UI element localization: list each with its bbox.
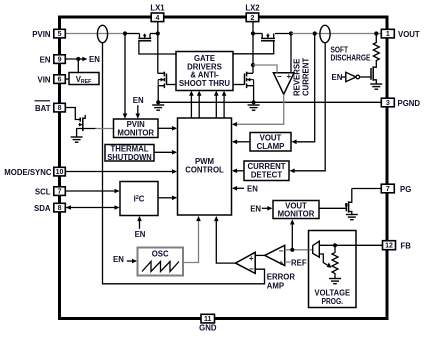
transistor Q3 low-side NMOS LX1-PGND xyxy=(158,72,165,74)
pin 11 GND xyxy=(201,314,215,323)
pin 7 PG xyxy=(381,184,394,193)
svg-text:SHUTDOWN: SHUTDOWN xyxy=(107,153,152,162)
wire EN into I2C xyxy=(139,221,141,229)
wire current detect output to PWM control xyxy=(236,170,244,172)
block PVIN monitor xyxy=(114,119,159,138)
block current detect xyxy=(244,161,289,181)
ground symbol below Q3 xyxy=(152,104,164,106)
wire PVIN sense feedback to PWM comparator inverting input xyxy=(103,43,265,284)
svg-text:8: 8 xyxy=(58,105,62,112)
svg-text:11: 11 xyxy=(204,316,212,323)
sawtooth waveform in OSC xyxy=(142,262,179,272)
pin 7 SCL xyxy=(54,187,66,196)
svg-text:ERROR: ERROR xyxy=(267,272,296,281)
node LX2 sense xyxy=(251,63,255,67)
transistor Q5 power good NMOS xyxy=(345,203,347,211)
wire Q2 gate to gate drivers xyxy=(233,41,274,54)
node feedback to VOUT monitor xyxy=(290,248,294,252)
svg-text:8: 8 xyxy=(58,205,62,212)
wire oscillator output to PWM control xyxy=(183,221,199,263)
pin 9 EN xyxy=(54,55,66,64)
wire inverter to Q7 gate xyxy=(360,76,371,78)
wire PVIN tap down to PVIN monitor xyxy=(124,34,126,115)
wire FB net from voltage prog to pin 12 xyxy=(319,244,382,246)
svg-text:EN: EN xyxy=(135,230,146,239)
node Q4 source ground junction xyxy=(252,100,256,104)
arrow EN net label xyxy=(82,57,87,62)
wire EN into PWM control right side xyxy=(236,187,244,189)
wire EN into PVIN monitor xyxy=(137,105,139,114)
svg-text:DETECT: DETECT xyxy=(251,170,282,179)
wire EN to inverter xyxy=(342,76,346,78)
gate drive signal 2 from PWM control xyxy=(198,95,200,118)
wire LX2 to Q2 source xyxy=(253,33,262,35)
pin 8 BAT (active low) xyxy=(54,103,66,112)
pin 5 PVIN xyxy=(54,29,66,38)
wire VOUT rail to pin 1 xyxy=(291,33,382,35)
svg-text:SCL: SCL xyxy=(35,188,51,197)
wire VIN to VREF xyxy=(65,78,69,80)
wire SCL to I2C xyxy=(65,190,115,192)
node LX1 xyxy=(156,31,160,35)
comparator reverse current (down-pointing) xyxy=(273,73,294,95)
ground symbol below Q7 xyxy=(370,83,382,85)
ground symbol below divider xyxy=(329,278,341,280)
svg-text:FB: FB xyxy=(401,242,412,251)
svg-text:9: 9 xyxy=(58,57,62,64)
svg-text:EN: EN xyxy=(247,185,258,194)
svg-text:GND: GND xyxy=(199,324,217,333)
wire Q6 drain to PVIN monitor xyxy=(96,128,114,130)
pin 3 PGND xyxy=(381,98,394,107)
wire error amp output to comparator xyxy=(255,254,265,256)
wire EN into oscillator xyxy=(127,260,133,262)
ground symbol below Q6 xyxy=(71,136,83,138)
svg-text:MONITOR: MONITOR xyxy=(278,209,315,218)
wire reverse current comparator output to PWM control xyxy=(236,94,283,124)
wiper control wire xyxy=(319,254,327,265)
node VOUT clamp tap xyxy=(313,31,317,35)
svg-text:OSC: OSC xyxy=(152,250,169,259)
svg-text:7: 7 xyxy=(58,189,62,196)
svg-text:MODE/SYNC: MODE/SYNC xyxy=(4,168,52,177)
node VOUT reverse-current tap xyxy=(289,31,293,35)
svg-text:BAT: BAT xyxy=(35,104,51,113)
block I2C interface xyxy=(120,182,158,216)
svg-text:EN: EN xyxy=(332,73,343,82)
wire thermal shutdown output to PWM control xyxy=(154,151,173,153)
svg-text:MONITOR: MONITOR xyxy=(117,128,154,137)
wire reference output from mux to error amp xyxy=(309,249,313,251)
wire Q2 drain to VOUT node xyxy=(275,33,291,35)
mux DAC symbol in voltage prog xyxy=(313,241,320,257)
block voltage programming xyxy=(309,231,357,308)
block PWM control xyxy=(178,118,232,215)
inverter soft discharge enable xyxy=(346,72,356,81)
svg-text:PROG.: PROG. xyxy=(322,297,344,306)
pin 6 VIN xyxy=(54,75,66,84)
pin 1 VOUT xyxy=(381,29,394,38)
transistor Q7 soft discharge NMOS xyxy=(370,68,372,80)
svg-text:REF: REF xyxy=(291,258,307,267)
block VREF xyxy=(69,73,99,85)
svg-text:SHOOT THRU: SHOOT THRU xyxy=(179,79,230,88)
svg-text:EN: EN xyxy=(89,55,100,64)
pin 12 FB xyxy=(383,241,396,250)
svg-text:1: 1 xyxy=(386,31,390,38)
current sense element on VOUT (ellipse) xyxy=(320,25,330,42)
wire PVIN monitor output to PWM control xyxy=(158,127,173,129)
ground symbol below Q4 xyxy=(248,104,260,106)
svg-text:4: 4 xyxy=(155,15,159,22)
wire VOUT clamp input from VOUT node xyxy=(296,34,315,142)
svg-text:CLAMP: CLAMP xyxy=(257,142,285,151)
svg-text:EN: EN xyxy=(133,96,144,105)
gate drive signal 1 from PWM control xyxy=(190,95,192,118)
transistor Q4 low-side NMOS LX2-PGND xyxy=(247,72,253,74)
svg-text:EN: EN xyxy=(40,55,51,64)
pin 2 LX2 xyxy=(246,13,259,22)
block VOUT clamp xyxy=(250,133,291,152)
svg-text:CONTROL: CONTROL xyxy=(185,165,224,174)
pin 8 SDA xyxy=(54,203,66,212)
wire Q5 drain to PG pin 7 xyxy=(352,188,382,190)
svg-text:VOUT: VOUT xyxy=(398,30,420,39)
block VOUT monitor xyxy=(273,201,319,219)
block thermal shutdown xyxy=(105,145,154,162)
transistor Q1 high-side PMOS PVIN-LX1 xyxy=(139,34,141,39)
op-amp error amplifier xyxy=(265,245,285,265)
node Q3 source ground junction xyxy=(156,100,160,104)
wire EN into VOUT monitor xyxy=(262,207,268,209)
svg-text:LX1: LX1 xyxy=(150,3,165,12)
wire Q1 drain to LX1 xyxy=(150,33,158,35)
svg-text:REVERSE: REVERSE xyxy=(293,59,302,96)
svg-text:5: 5 xyxy=(58,31,62,38)
svg-text:LX2: LX2 xyxy=(245,3,260,12)
node EN junction xyxy=(76,57,80,61)
wire SDA to I2C (bidirectional) xyxy=(65,207,115,209)
svg-text:12: 12 xyxy=(385,243,393,250)
wire MODE/SYNC to PWM control xyxy=(65,171,172,173)
gate drive signal 4 from PWM control xyxy=(223,95,225,118)
wire VOUT clamp output to PWM control xyxy=(236,141,250,143)
svg-text:+: + xyxy=(249,254,254,263)
wire I2C output to PWM control xyxy=(158,197,173,199)
wire feedback to error amp inverting input xyxy=(285,249,313,251)
wire REF to error amp non-inverting input xyxy=(285,261,291,263)
resistor programmable divider xyxy=(332,245,338,278)
svg-text:−: − xyxy=(279,247,284,256)
svg-text:−: − xyxy=(249,265,254,274)
wire current detect input from VOUT sense xyxy=(294,43,326,171)
svg-text:7: 7 xyxy=(386,186,390,193)
svg-text:VIN: VIN xyxy=(38,75,51,84)
transistor Q2 high-side PMOS LX2-VOUT xyxy=(261,34,263,39)
svg-text:10: 10 xyxy=(56,169,64,176)
svg-text:−: − xyxy=(277,72,282,81)
node PVIN junction xyxy=(123,31,127,35)
node soft discharge tap xyxy=(374,31,378,35)
wire feedback up to VOUT monitor xyxy=(291,224,293,250)
svg-text:PVIN: PVIN xyxy=(32,30,51,39)
transistor Q6 BAT PMOS switch xyxy=(65,108,80,120)
node LX2 top xyxy=(251,31,255,35)
wire VOUT node to reverse current comparator + xyxy=(290,34,292,73)
pin 4 LX1 xyxy=(151,13,164,22)
node FB divider tap xyxy=(333,243,337,247)
wire comparator output to PWM control xyxy=(216,221,235,263)
comparator PWM (ramp comparator) xyxy=(236,252,256,273)
svg-text:I2C: I2C xyxy=(134,195,145,204)
current sense element on PVIN (ellipse) xyxy=(97,25,107,42)
gate drive signal 3 from PWM control xyxy=(215,95,217,118)
block gate drivers and anti-shoot-thru U1 xyxy=(176,52,233,91)
resistor soft discharge xyxy=(373,34,379,67)
wire VOUT monitor output to Q5 gate xyxy=(319,207,346,209)
wire EN net from pin 9 xyxy=(65,58,82,60)
ground symbol below Q5 xyxy=(346,214,358,216)
svg-text:DISCHARGE: DISCHARGE xyxy=(331,54,371,63)
pin 10 MODE/SYNC xyxy=(54,167,66,176)
svg-text:+: + xyxy=(286,72,291,81)
chip boundary xyxy=(60,17,388,319)
wire Q3 gate to gate drivers xyxy=(167,84,177,86)
svg-text:2: 2 xyxy=(250,15,254,22)
wire PVIN net (pin 5 to Q1 source) xyxy=(65,33,125,35)
svg-text:AMP: AMP xyxy=(267,281,284,290)
wire LX2 (pin 2 to Q4 drain) xyxy=(252,21,254,73)
svg-text:PGND: PGND xyxy=(398,99,421,108)
svg-text:EN: EN xyxy=(113,255,124,264)
wire Q4 gate to gate drivers xyxy=(233,84,245,86)
svg-text:SDA: SDA xyxy=(34,204,51,213)
svg-text:3: 3 xyxy=(386,100,390,107)
svg-text:EN: EN xyxy=(250,205,261,214)
block oscillator OSC xyxy=(138,248,184,276)
wire Q1 gate to gate drivers xyxy=(139,41,176,54)
svg-text:+: + xyxy=(279,258,284,267)
ground rail to PGND pin 3 xyxy=(158,101,381,103)
wire EN to VREF xyxy=(77,59,79,73)
wire LX1 (pin 4 to Q3 drain) xyxy=(157,21,159,73)
svg-text:CURRENT: CURRENT xyxy=(302,58,311,96)
svg-text:6: 6 xyxy=(58,77,62,84)
svg-text:PG: PG xyxy=(400,185,411,194)
